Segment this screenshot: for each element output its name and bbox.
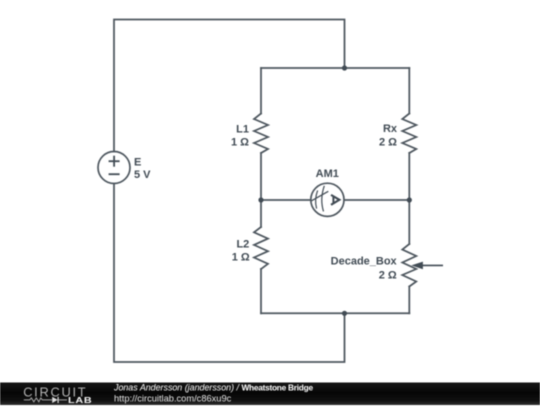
footer bar	[0, 383, 540, 406]
wire right lower branch	[408, 200, 410, 244]
svg-text:L1: L1	[236, 124, 249, 136]
resistor L2	[254, 227, 268, 269]
wire L2 to bottom rail	[260, 269, 262, 313]
svg-text:5 V: 5 V	[134, 169, 151, 181]
wire L1 to mid rail	[260, 153, 262, 200]
wire left upper branch	[260, 68, 262, 114]
wiper arrow of Decade_Box	[411, 262, 443, 270]
junction node right mid	[407, 197, 412, 202]
wire right upper branch	[408, 68, 410, 114]
wire Decade_Box to bottom rail	[408, 287, 410, 314]
svg-text:2 Ω: 2 Ω	[379, 136, 397, 148]
wire top-left loop	[114, 20, 345, 152]
svg-text:http://circuitlab.com/c86xu9c: http://circuitlab.com/c86xu9c	[114, 394, 232, 404]
wire bottom-left loop	[114, 184, 345, 362]
wire Rx to mid rail	[408, 153, 410, 200]
resistor Rx	[402, 114, 416, 154]
resistor L1	[254, 114, 268, 154]
wire mid rail right	[344, 199, 409, 201]
svg-text:Rx: Rx	[383, 123, 398, 135]
voltage source E	[98, 152, 130, 184]
wire top rail	[261, 67, 409, 69]
junction bottom node	[342, 311, 347, 316]
svg-text:E: E	[134, 157, 141, 169]
svg-text:L2: L2	[236, 239, 249, 251]
potentiometer Decade_Box	[402, 244, 416, 287]
wire bottom rail	[261, 312, 409, 314]
svg-text:1 Ω: 1 Ω	[231, 137, 249, 149]
wire mid rail left	[261, 199, 311, 201]
svg-text:2 Ω: 2 Ω	[379, 270, 397, 282]
svg-text:LAB: LAB	[68, 396, 92, 405]
svg-text:1 Ω: 1 Ω	[232, 252, 250, 264]
svg-text:Jonas Andersson (jandersson) /: Jonas Andersson (jandersson) / Wheatston…	[113, 383, 313, 393]
svg-text:AM1: AM1	[316, 168, 339, 180]
junction node left mid	[258, 197, 263, 202]
logo resistor-diode glyph	[24, 397, 67, 403]
ammeter AM1	[311, 183, 344, 216]
svg-text:Decade_Box: Decade_Box	[331, 255, 398, 267]
wire left lower branch	[260, 200, 262, 227]
junction top node	[342, 65, 347, 70]
